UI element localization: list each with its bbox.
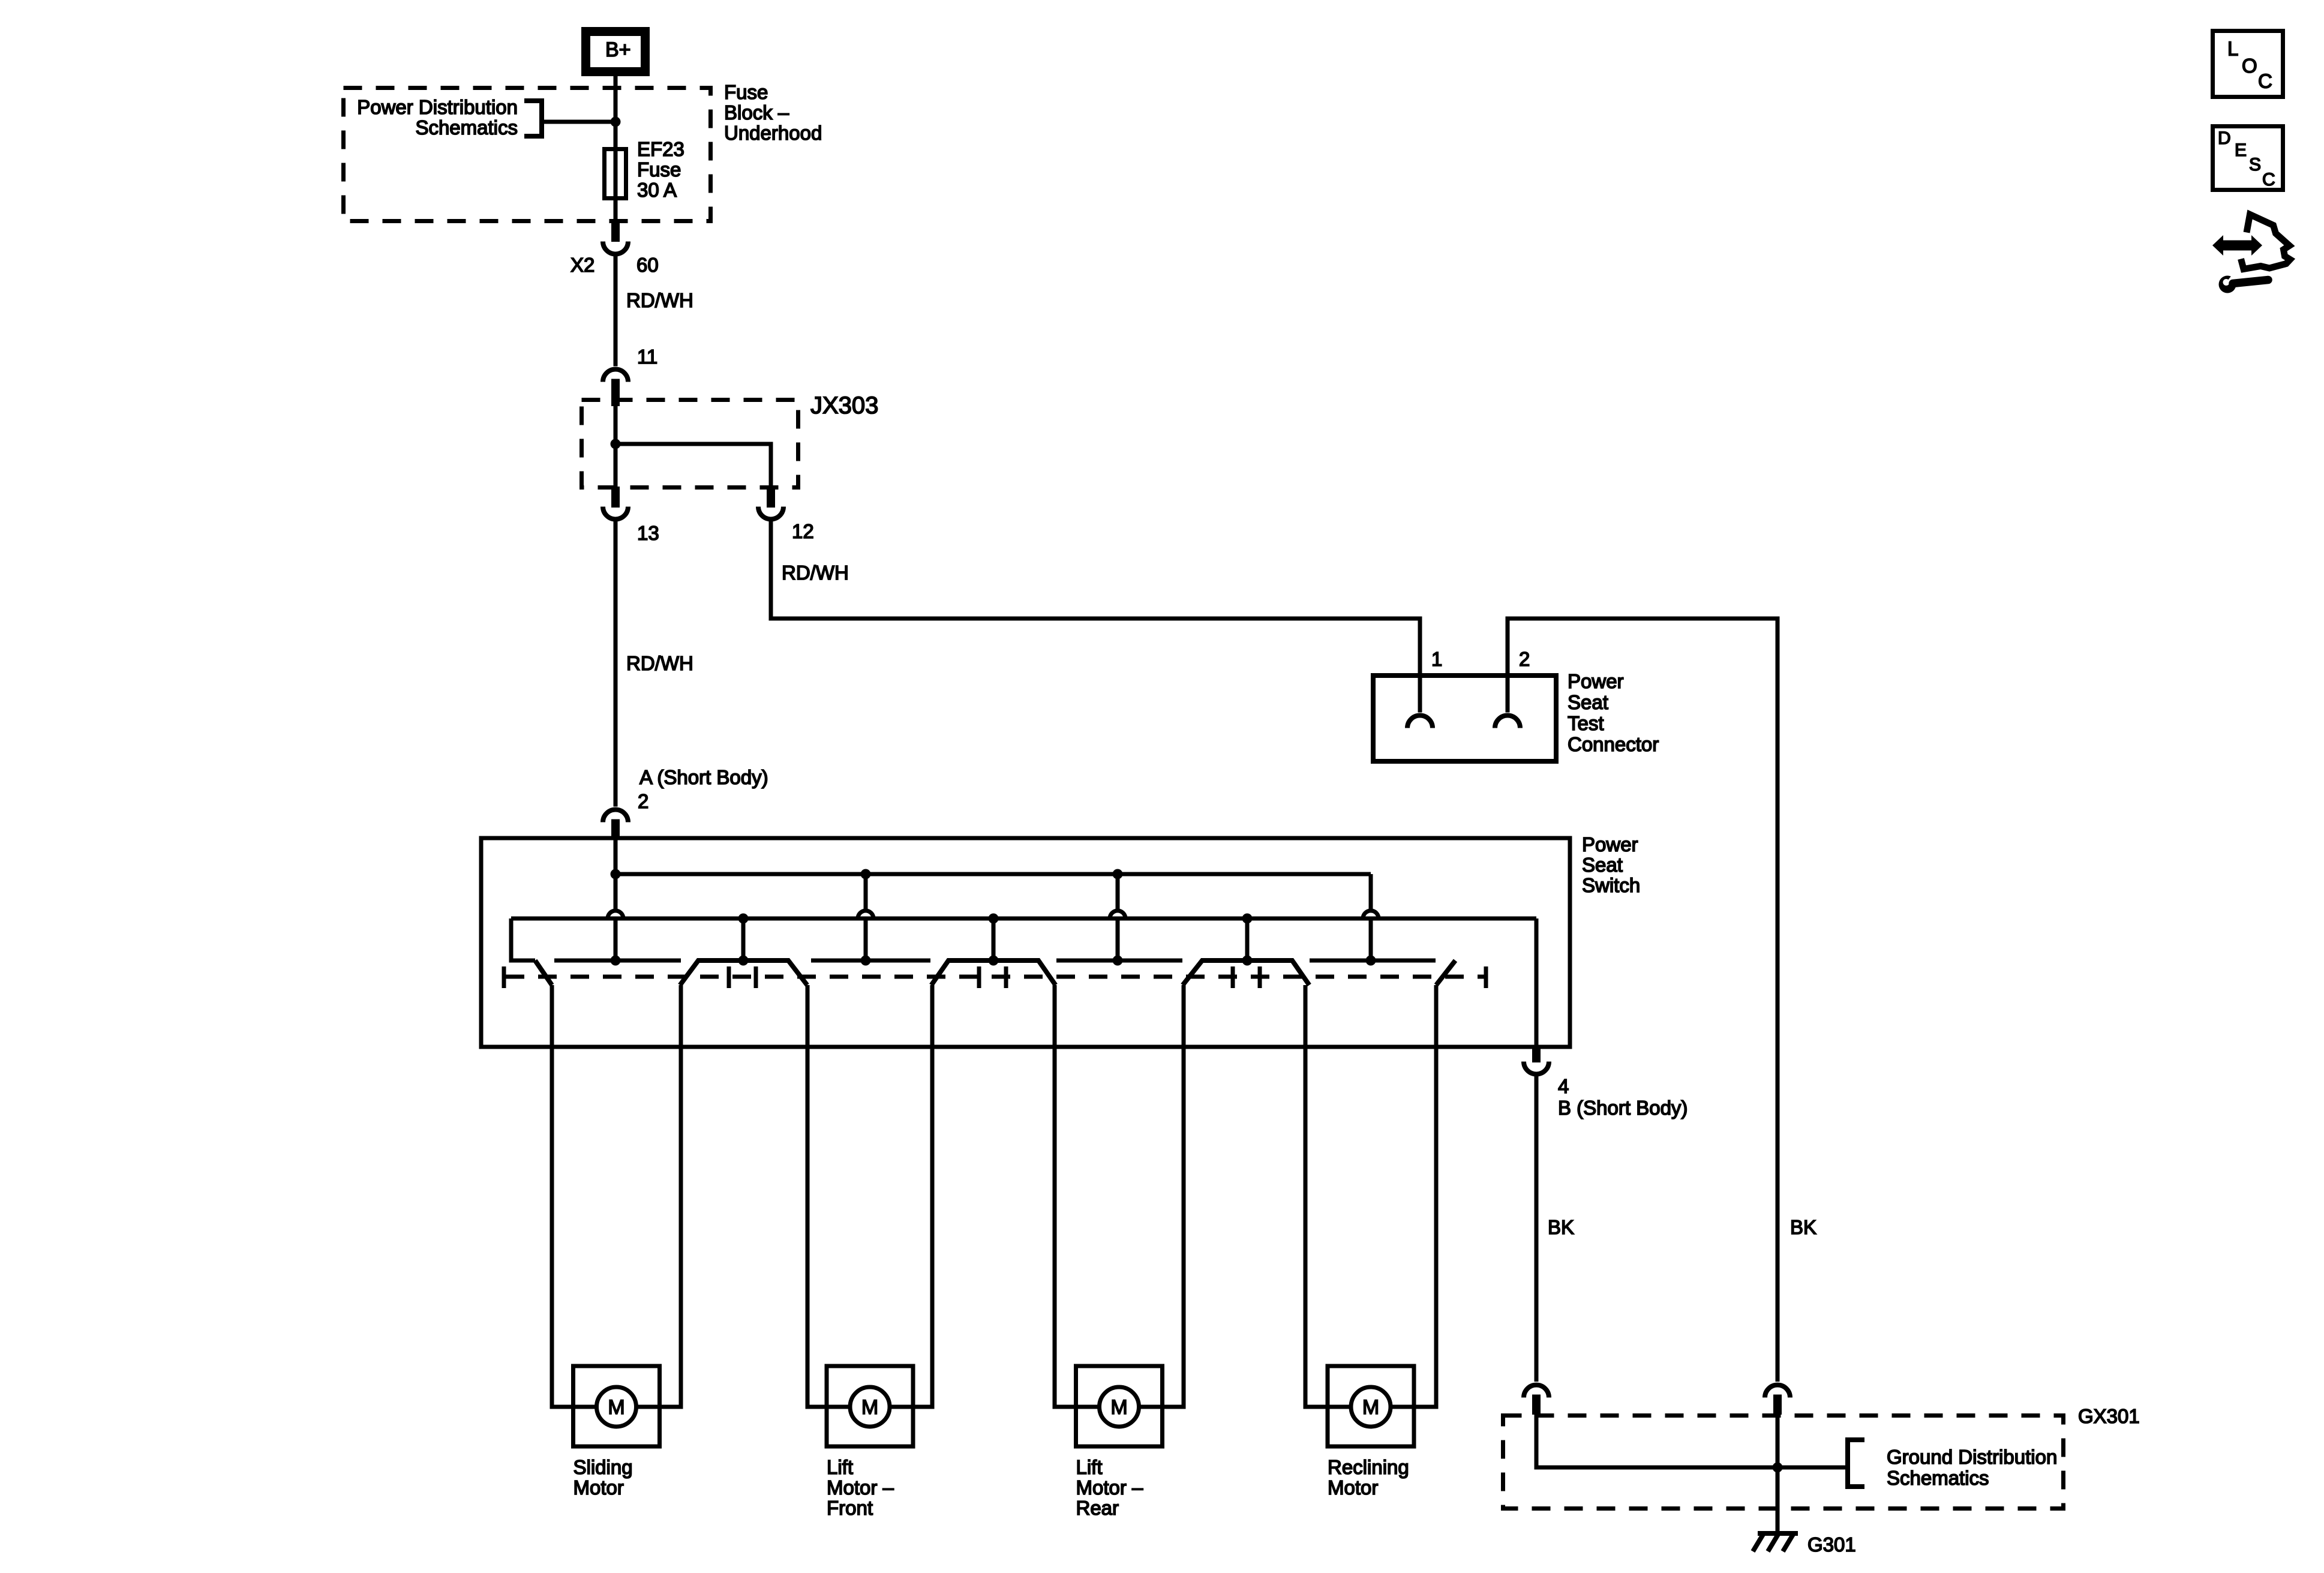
junction block JX303 dashed box xyxy=(582,400,798,488)
linkage tick hat4 right xyxy=(1004,966,1008,988)
label EF23 Fuse 30 A xyxy=(637,138,684,201)
svg-text:60: 60 xyxy=(636,254,659,276)
svg-text:11: 11 xyxy=(637,346,657,368)
svg-text:GX301: GX301 xyxy=(2078,1405,2140,1427)
connector pin 4 male pin B Short Body xyxy=(1532,1045,1541,1062)
wire GX301 right internal to G301 xyxy=(1776,1415,1780,1533)
svg-text:Power Distribution: Power Distribution xyxy=(357,96,518,118)
svg-text:BK: BK xyxy=(1790,1216,1816,1238)
switch bridge hat 6 xyxy=(1183,960,1310,985)
label 60 xyxy=(636,254,659,276)
bracket to Power Distribution Schematics xyxy=(524,101,542,136)
junction dot rail1 at v5 xyxy=(1113,869,1123,879)
junction dot v7 on bar D xyxy=(1366,956,1376,966)
linkage tick left xyxy=(502,966,506,988)
motor M4 housing box xyxy=(1328,1366,1414,1446)
wire motor M4 right lead xyxy=(1391,1405,1436,1409)
svg-text:Rear: Rear xyxy=(1076,1497,1119,1519)
label Power Seat Test Connector xyxy=(1568,670,1659,755)
svg-text:RD/WH: RD/WH xyxy=(626,289,693,311)
wire switch output leg 7 to motor xyxy=(1304,985,1308,1409)
junction dot rail2 at v2 xyxy=(738,914,749,924)
svg-text:Front: Front xyxy=(827,1497,873,1519)
svg-text:4: 4 xyxy=(1558,1075,1569,1097)
label GX301 xyxy=(2078,1405,2140,1427)
junction dot rail2 at v4 xyxy=(989,914,999,924)
svg-text:M: M xyxy=(608,1396,624,1419)
svg-text:Seat: Seat xyxy=(1582,854,1623,876)
icon service wrench xyxy=(2219,272,2269,293)
connector JX303 pin 13 male pin xyxy=(611,487,620,508)
wire motor M3 right lead xyxy=(1139,1405,1184,1409)
svg-text:Power: Power xyxy=(1568,670,1624,692)
connector X2 pin 60 female terminal xyxy=(603,242,628,254)
label RD/WH wire 1 xyxy=(626,289,693,311)
junction dot bar B feed xyxy=(861,956,871,966)
svg-text:Seat: Seat xyxy=(1568,691,1608,713)
wire v4 rail2 to hat4 xyxy=(992,918,996,960)
svg-text:Connector: Connector xyxy=(1568,733,1659,755)
wire v3 rail1 to bar B xyxy=(864,874,868,960)
svg-text:BK: BK xyxy=(1548,1216,1574,1238)
ground splice GX301 right male pin xyxy=(1773,1395,1782,1415)
wire test connector pin 2 to ground run xyxy=(1508,619,1777,1382)
svg-text:JX303: JX303 xyxy=(810,392,878,419)
svg-text:30 A: 30 A xyxy=(637,179,677,201)
label 13 xyxy=(637,522,659,544)
motor M3 circle xyxy=(1100,1387,1139,1427)
svg-text:RD/WH: RD/WH xyxy=(782,562,849,584)
junction dot power distribution tap xyxy=(611,117,621,127)
switch blade pole 8 open xyxy=(1436,960,1455,985)
wire switch output leg 6 to motor xyxy=(1182,985,1186,1409)
wire v8 rail2 end drop to pin 4 exit xyxy=(1535,918,1539,1045)
linkage tick right xyxy=(1484,966,1488,988)
label B (Short Body) xyxy=(1558,1097,1688,1119)
linkage tick hat2 right xyxy=(754,966,758,988)
label Power Seat Switch xyxy=(1582,833,1640,896)
motor M1 housing box xyxy=(574,1366,660,1446)
connector pin 4 female terminal xyxy=(1524,1062,1549,1074)
switch pole left rail2 contact arm xyxy=(511,918,535,960)
wire RD/WH JX303-12 to test connector pin 1 xyxy=(771,517,1420,713)
icon service arrow double-headed xyxy=(2212,235,2262,256)
wire switch output leg 1 to motor xyxy=(550,985,554,1409)
wire motor M4 left lead xyxy=(1305,1405,1351,1409)
svg-text:EF23: EF23 xyxy=(637,138,684,160)
svg-text:Block –: Block – xyxy=(724,101,789,124)
svg-text:Sliding: Sliding xyxy=(574,1456,633,1478)
junction dot rail1 at v3 xyxy=(861,869,871,879)
wire motor M1 left lead xyxy=(552,1405,597,1409)
linkage tick hat4 left xyxy=(977,966,981,988)
label G301 xyxy=(1807,1533,1856,1556)
test connector pin 1 female terminal xyxy=(1407,716,1433,728)
svg-text:Ground Distribution: Ground Distribution xyxy=(1887,1446,2057,1468)
switch bridge hat 4 xyxy=(932,960,1056,985)
wire motor M2 left lead xyxy=(807,1405,850,1409)
label motor M1 name xyxy=(574,1456,633,1499)
wire switch output leg 4 to motor xyxy=(930,985,935,1409)
svg-text:RD/WH: RD/WH xyxy=(626,652,693,674)
junction dot JX303 splice xyxy=(611,439,621,449)
svg-text:C: C xyxy=(2262,170,2275,190)
svg-text:C: C xyxy=(2258,70,2272,92)
motor M1 circle xyxy=(597,1387,636,1427)
svg-text:Motor: Motor xyxy=(1328,1476,1378,1499)
icon DESC box xyxy=(2213,127,2283,190)
power symbol B+ battery feed xyxy=(586,32,645,72)
motor M2 circle xyxy=(850,1387,890,1427)
label pin 2 xyxy=(1519,648,1530,670)
label 11 xyxy=(637,346,657,368)
fuse EF23 30A body xyxy=(605,149,626,199)
label motor M2 name xyxy=(827,1456,894,1519)
label Power Distribution Schematics xyxy=(357,96,518,139)
svg-text:M: M xyxy=(861,1396,878,1419)
junction dot bar C feed xyxy=(1113,956,1123,966)
label Ground Distribution Schematics xyxy=(1887,1446,2057,1489)
svg-text:Motor –: Motor – xyxy=(827,1476,894,1499)
label Fuse Block - Underhood xyxy=(724,81,822,144)
svg-text:Underhood: Underhood xyxy=(724,122,822,144)
motor M3 housing box xyxy=(1076,1366,1163,1446)
linkage tick hat6 right xyxy=(1258,966,1262,988)
connector JX303 pin 13 female terminal xyxy=(603,507,628,520)
label 4 xyxy=(1558,1075,1569,1097)
wire RD/WH from X2-60 to JX303 pin 11 xyxy=(614,252,618,367)
svg-text:E: E xyxy=(2235,140,2247,160)
junction dot feed on rail1 xyxy=(611,869,621,879)
label X2 xyxy=(571,254,594,276)
svg-text:S: S xyxy=(2249,155,2261,175)
wire JX303 splice to pin 12 drop xyxy=(615,444,771,487)
wire v5 rail1 to bar C xyxy=(1116,874,1120,960)
svg-text:X2: X2 xyxy=(571,254,594,276)
label BK right xyxy=(1790,1216,1816,1238)
ground splice GX301 left female terminal xyxy=(1524,1385,1549,1398)
wire switch output leg 5 to motor xyxy=(1053,985,1057,1409)
switch blade pole 1 xyxy=(535,960,552,985)
component Power Seat Switch box xyxy=(481,838,1570,1047)
linkage tick hat2 left xyxy=(727,966,731,988)
switch contact bar B xyxy=(811,959,930,963)
label motor M3 name xyxy=(1076,1456,1144,1519)
wire switch output leg 8 to motor xyxy=(1434,985,1439,1409)
svg-text:G301: G301 xyxy=(1807,1533,1856,1556)
label JX303 xyxy=(810,392,878,419)
junction dot hat4 feed xyxy=(989,956,999,966)
crossover hop v5 over rail2 xyxy=(1110,911,1125,918)
label 12 xyxy=(792,520,814,542)
connector JX303 pin 11 female terminal xyxy=(603,370,628,382)
wire motor M3 left lead xyxy=(1055,1405,1100,1409)
linkage tick hat6 left xyxy=(1231,966,1235,988)
motor M2 housing box xyxy=(827,1366,913,1446)
label 2 switch pin xyxy=(638,790,648,812)
label motor M3 M xyxy=(1110,1396,1127,1419)
svg-text:Switch: Switch xyxy=(1582,874,1640,896)
wire v2 rail2 to hat2 xyxy=(741,918,746,960)
switch connector pin 2 female terminal xyxy=(603,810,628,822)
svg-text:Schematics: Schematics xyxy=(415,116,518,139)
label motor M4 M xyxy=(1362,1396,1379,1419)
wire B+ down to fuse EF23 xyxy=(614,76,618,226)
wire BK pin4 to GX301 xyxy=(1535,1073,1539,1382)
svg-text:Lift: Lift xyxy=(1076,1456,1103,1478)
junction dot bar A feed xyxy=(611,956,621,966)
svg-text:D: D xyxy=(2218,128,2231,148)
wire rail1 B+ bus xyxy=(615,872,1371,876)
svg-text:A (Short Body): A (Short Body) xyxy=(639,766,768,788)
ground splice pack GX301 dashed box xyxy=(1503,1416,2064,1509)
wire switch output leg 2 to motor xyxy=(679,985,683,1409)
switch contact bar A xyxy=(554,959,681,963)
label BK left xyxy=(1548,1216,1574,1238)
label pin 1 xyxy=(1431,648,1442,670)
junction dot hat2 feed xyxy=(738,956,749,966)
motor M4 circle xyxy=(1351,1387,1391,1427)
wire switch output leg 3 to motor xyxy=(806,985,810,1409)
svg-text:Test: Test xyxy=(1568,712,1604,734)
label motor M2 M xyxy=(861,1396,878,1419)
wire GX301 left internal xyxy=(1536,1415,1777,1467)
test connector pin 2 female terminal xyxy=(1495,716,1520,728)
switch linkage dashed line xyxy=(506,975,1486,979)
svg-text:2: 2 xyxy=(1519,648,1530,670)
junction dot hat6 feed xyxy=(1242,956,1253,966)
wire rail2 ground bus xyxy=(511,917,1536,921)
switch contact bar C xyxy=(1056,959,1182,963)
junction dot GX301 splice xyxy=(1773,1463,1783,1473)
bracket to Ground Distribution Schematics xyxy=(1848,1440,1864,1487)
connector Power Seat Test Connector box xyxy=(1373,676,1556,761)
crossover hop feed over rail2 xyxy=(608,911,623,918)
wire switch feed pin2 down to bar A xyxy=(614,840,618,960)
switch contact bar D xyxy=(1310,959,1436,963)
crossover hop v7 over rail2 xyxy=(1363,911,1379,918)
wire v7 rail1 end drop to bar D xyxy=(1369,874,1373,960)
connector JX303 pin 11 male pin xyxy=(611,379,620,407)
fuse block underhood dashed box xyxy=(344,88,711,221)
ground splice GX301 right female terminal xyxy=(1765,1385,1790,1398)
label RD/WH wire 3 xyxy=(626,652,693,674)
svg-text:Fuse: Fuse xyxy=(724,81,768,103)
icon LOC box xyxy=(2213,31,2283,97)
wire GX301 splice to ground distribution bracket xyxy=(1777,1466,1848,1470)
svg-text:12: 12 xyxy=(792,520,814,542)
wire motor M1 right lead xyxy=(636,1405,681,1409)
ground splice GX301 left male pin xyxy=(1532,1395,1541,1415)
svg-text:Fuse: Fuse xyxy=(637,158,681,181)
wire JX303 splice down to pin 13 xyxy=(614,444,618,487)
switch connector pin 2 male pin xyxy=(611,819,620,840)
wire RD/WH JX303-13 to switch pin 2 xyxy=(614,517,618,807)
connector JX303 pin 12 female terminal xyxy=(758,507,783,520)
svg-text:Reclining: Reclining xyxy=(1328,1456,1409,1478)
ground symbol G301 xyxy=(1753,1533,1798,1551)
svg-text:B+: B+ xyxy=(605,38,631,61)
crossover hop v3 over rail2 xyxy=(858,911,873,918)
svg-text:O: O xyxy=(2242,55,2257,77)
svg-text:Motor: Motor xyxy=(574,1476,624,1499)
wire v6 rail2 to hat6 xyxy=(1245,918,1250,960)
icon DESC letters xyxy=(2218,128,2275,190)
icon service panel outline xyxy=(2241,215,2290,269)
svg-text:Lift: Lift xyxy=(827,1456,853,1478)
label motor M4 name xyxy=(1328,1456,1409,1499)
svg-text:Schematics: Schematics xyxy=(1887,1467,1989,1489)
svg-text:M: M xyxy=(1110,1396,1127,1419)
wire JX303 internal pin 11 to splice xyxy=(614,406,618,444)
label RD/WH wire 2 xyxy=(782,562,849,584)
label motor M1 M xyxy=(608,1396,624,1419)
label A (Short Body) xyxy=(639,766,768,788)
wire tap to power distribution bracket xyxy=(542,120,615,124)
svg-text:Motor –: Motor – xyxy=(1076,1476,1144,1499)
svg-text:13: 13 xyxy=(637,522,659,544)
svg-text:M: M xyxy=(1362,1396,1379,1419)
svg-text:1: 1 xyxy=(1431,648,1442,670)
svg-text:L: L xyxy=(2227,38,2238,60)
svg-text:2: 2 xyxy=(638,790,648,812)
connector JX303 pin 12 male pin xyxy=(767,487,775,508)
switch bridge hat 2 xyxy=(680,960,807,985)
svg-text:Power: Power xyxy=(1582,833,1638,855)
icon LOC letters xyxy=(2227,38,2272,92)
svg-text:B (Short Body): B (Short Body) xyxy=(1558,1097,1688,1119)
wire motor M2 right lead xyxy=(890,1405,932,1409)
connector X2 pin 60 male pin xyxy=(611,223,620,242)
junction dot rail2 at v6 xyxy=(1242,914,1253,924)
